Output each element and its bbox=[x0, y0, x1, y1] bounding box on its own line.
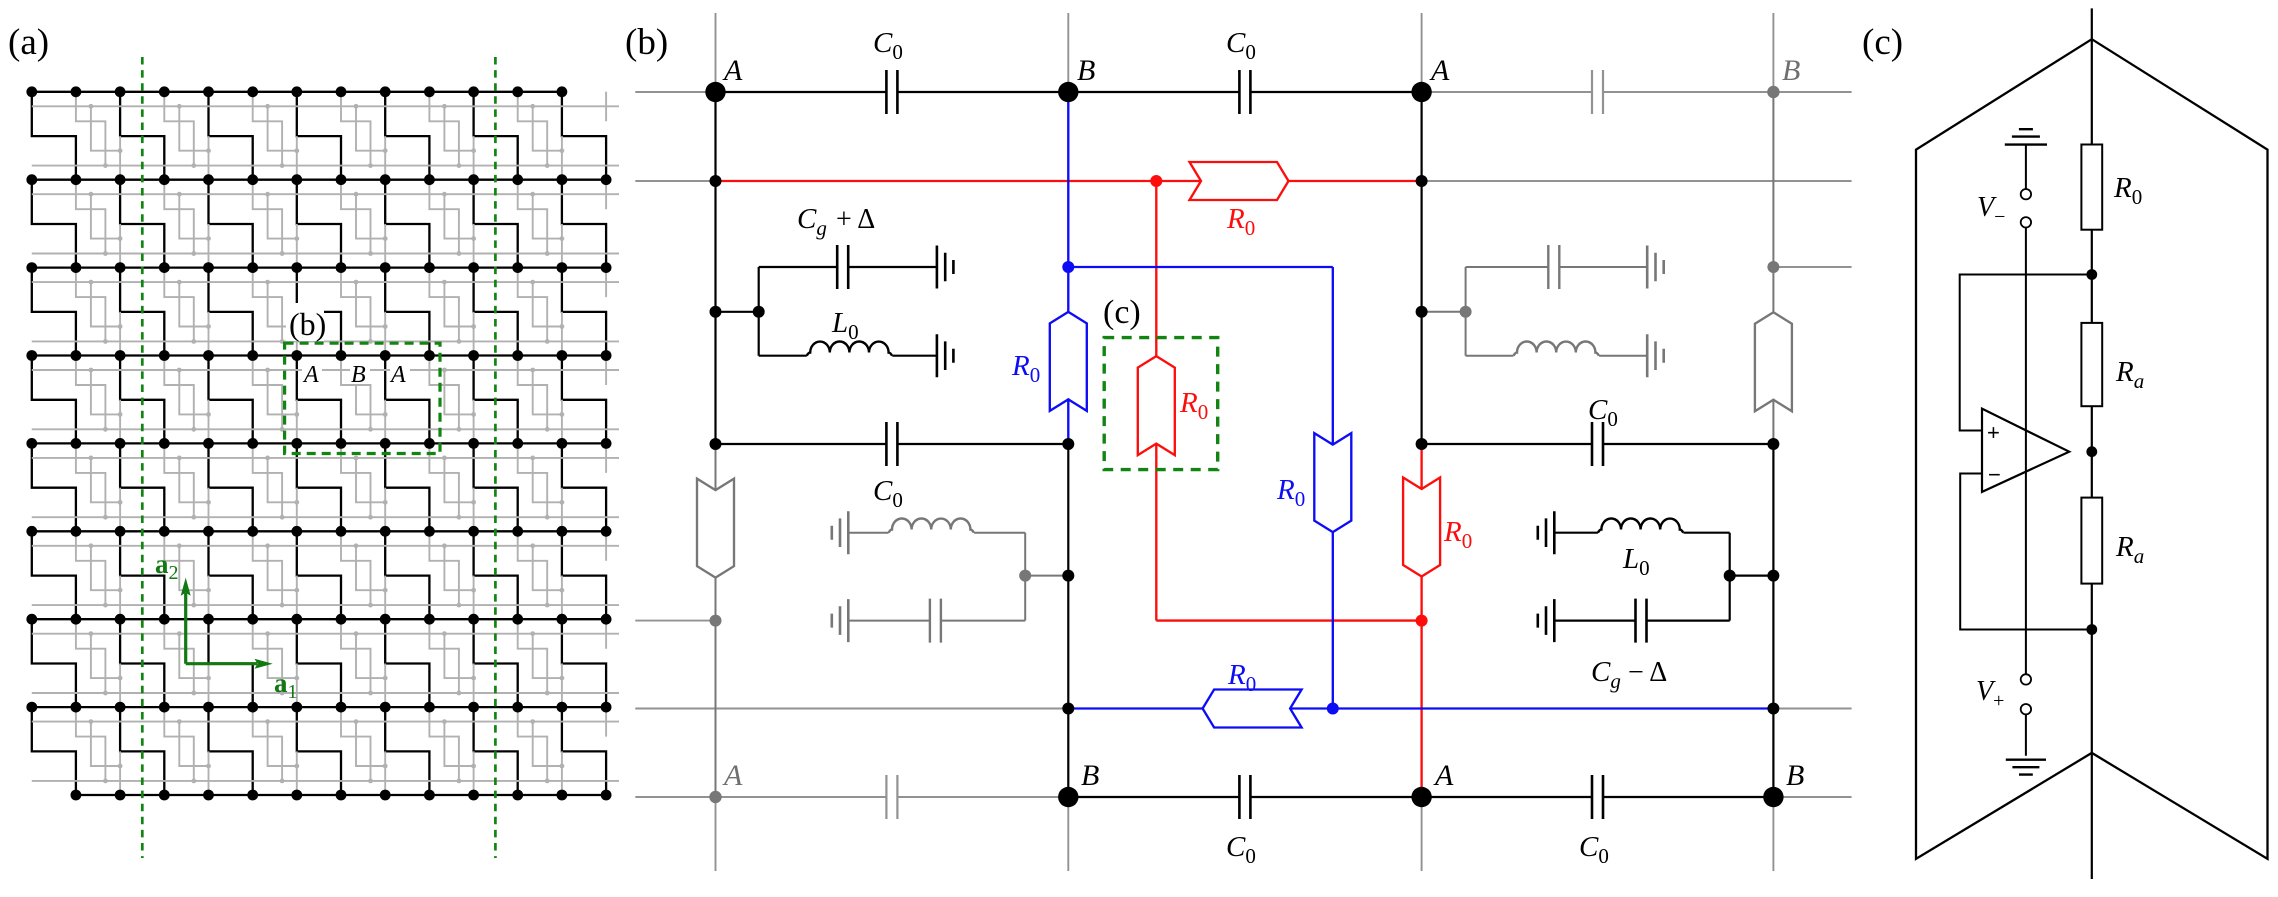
source terminal circles V+ bbox=[2021, 674, 2031, 684]
resistor R0 bbox=[2081, 145, 2102, 230]
wire: gray capacitor branch right cell bbox=[1466, 266, 1648, 268]
wire: LC vertical bbox=[758, 267, 760, 356]
capacitor Cg+Delta bbox=[837, 245, 848, 289]
ground bottom (V+) bbox=[2006, 760, 2046, 775]
wire: bottom row B1-A2 with C0 bbox=[1068, 796, 1421, 798]
svg-text:A: A bbox=[302, 362, 319, 388]
wire: gray A1 column below C0 row bbox=[715, 444, 717, 797]
junctions: gray jog nodes band 8 bbox=[89, 719, 565, 783]
node B1 top bbox=[1058, 82, 1078, 102]
junction: dot on A1 column at LC link bbox=[710, 306, 722, 318]
wire: blue lower bus with R0 arrow bbox=[1068, 707, 1773, 709]
lattice vector a2 arrow bbox=[181, 578, 191, 664]
junction: dot on A2 column at LC link bbox=[1416, 306, 1428, 318]
wire: gray stub above node A1 bbox=[715, 13, 717, 92]
wire: C0 row A1-B1 bbox=[716, 443, 1069, 445]
resistor R0 blue INIC arrow on lower bus (left) bbox=[1203, 690, 1302, 728]
wire: gray stub below B2 bottom bbox=[1772, 797, 1774, 871]
wires: gray bus lines band 7 bbox=[32, 634, 619, 693]
op-amp U1 triangle bbox=[1982, 409, 2069, 492]
capacitor Cg-Delta bbox=[1636, 599, 1647, 643]
junction: blue dot lower bus bbox=[1327, 703, 1339, 715]
wire: Cg capacitor branch bbox=[759, 266, 937, 268]
resistor Ra lower bbox=[2081, 498, 2102, 584]
wire: gray mid row stub at B2 bbox=[1773, 266, 1851, 268]
svg-text:A: A bbox=[1429, 54, 1450, 87]
inductor L0 gray bbox=[889, 519, 974, 533]
wire: lattice row 7 horizontal bbox=[32, 618, 606, 620]
wires: gray coupling jogs band 3 bbox=[76, 268, 606, 356]
svg-text:(c): (c) bbox=[1103, 294, 1141, 331]
unit cell box (b) green dashed rectangle bbox=[285, 343, 440, 453]
svg-text:B: B bbox=[1081, 759, 1099, 792]
node A1 top bbox=[705, 82, 725, 102]
svg-text:B: B bbox=[1786, 759, 1804, 792]
wire: red dropper vertical bbox=[1155, 181, 1157, 621]
wire: gray inductor branch right cell bbox=[1466, 355, 1648, 357]
junction: LC input dot bbox=[753, 306, 765, 318]
wires: gray bus lines band 8 bbox=[32, 722, 619, 781]
junctions: gray jog nodes band 6 bbox=[89, 543, 565, 607]
svg-text:B: B bbox=[1782, 54, 1800, 87]
wire: lattice row 2 horizontal bbox=[32, 179, 606, 181]
wires: black staircase couplings band 4 bbox=[32, 356, 606, 444]
svg-text:A: A bbox=[722, 54, 743, 87]
resistor Ra upper bbox=[2081, 323, 2102, 406]
wire: C0 row A2-B2 bbox=[1422, 443, 1774, 445]
outline: magnified INIC element shape bbox=[1916, 39, 2268, 859]
wires: black staircase couplings band 8 bbox=[32, 707, 606, 795]
sublattice labels A B A bbox=[302, 362, 322, 384]
capacitor gray on bottom row bbox=[886, 775, 897, 819]
svg-text:− Δ: − Δ bbox=[1628, 657, 1667, 688]
wires: gray bus lines band 3 bbox=[32, 282, 619, 341]
junctions: gray jog nodes band 5 bbox=[89, 456, 565, 520]
wire: gray stub above node A2 bbox=[1421, 13, 1423, 92]
wires: gray coupling jogs band 8 bbox=[76, 707, 606, 795]
wires: black staircase couplings band 2 bbox=[32, 180, 606, 268]
wire: L0 branch bottom right bbox=[1554, 532, 1729, 534]
wires: black staircase couplings band 7 bbox=[32, 619, 606, 707]
junction: gray dot A1 lower mid bbox=[710, 615, 722, 627]
capacitor gray on top row bbox=[1592, 70, 1603, 114]
wire: B1 column black lower bbox=[1067, 444, 1069, 797]
wires: black staircase couplings band 1 bbox=[32, 92, 606, 180]
capacitor C0 bottom left bbox=[1239, 775, 1250, 819]
resistor R0 red INIC arrow on upper bus (right) bbox=[1190, 162, 1289, 200]
ground top (V-) bbox=[2005, 129, 2047, 144]
resistor R0 blue INIC arrow on B1 column (up) bbox=[1050, 312, 1087, 411]
wire: gray capacitor branch bbox=[848, 620, 1025, 622]
svg-text:B: B bbox=[351, 362, 366, 388]
wire: A1 column vertical bbox=[714, 92, 716, 444]
wire: gray stub below A1 bottom bbox=[715, 797, 717, 871]
svg-text:−: − bbox=[1988, 462, 2001, 487]
wires: gray bus lines band 2 bbox=[32, 194, 619, 253]
wire: gray LC link to B1 column bbox=[1025, 575, 1068, 577]
wire: lattice row 6 horizontal bbox=[32, 530, 606, 532]
source terminal circles V- bbox=[2021, 189, 2031, 199]
wire: center column bbox=[2091, 8, 2093, 879]
junction: node X dot bbox=[2086, 269, 2097, 280]
junction: red dot upper bus bbox=[1150, 175, 1162, 187]
ground gray at capacitor branch bbox=[832, 599, 849, 642]
wire: gray stub above node B2 bbox=[1772, 13, 1774, 92]
junction: LC dot right cell bbox=[1724, 570, 1736, 582]
wire: blue dropper vertical bbox=[1332, 267, 1334, 709]
svg-text:(b): (b) bbox=[289, 306, 326, 342]
svg-text:A: A bbox=[722, 759, 743, 792]
wire: red A2 column through arrow bbox=[1420, 444, 1422, 797]
wires: black staircase couplings band 5 bbox=[32, 443, 606, 531]
wires: gray coupling jogs band 5 bbox=[76, 443, 606, 531]
lattice vector a1 arrow bbox=[186, 659, 273, 669]
svg-text:+ Δ: + Δ bbox=[836, 204, 875, 235]
wire: red lower mid horizontal bbox=[1156, 619, 1421, 621]
svg-text:A: A bbox=[389, 362, 406, 388]
capacitor C0 mid row right bbox=[1592, 422, 1603, 466]
wire: bottom row A2-B2 with C0 bbox=[1422, 796, 1774, 798]
node B1 bottom bbox=[1058, 787, 1078, 807]
wire: link LC to B2 bbox=[1730, 574, 1774, 576]
ground at Cg-Delta branch bbox=[1538, 599, 1555, 642]
junctions: gray jog nodes band 4 bbox=[89, 368, 565, 432]
wires: gray coupling jogs band 6 bbox=[76, 531, 606, 619]
wire: lattice row 8 horizontal bbox=[32, 706, 606, 708]
wire: lattice row 1 horizontal bbox=[32, 91, 562, 93]
wires: gray coupling jogs band 4 bbox=[76, 356, 606, 444]
wire: blue B1 column through arrow bbox=[1067, 267, 1069, 444]
wire: gray bottom row A1 to B1 with capacitor bbox=[716, 796, 1069, 798]
node A2 top bbox=[1411, 82, 1431, 102]
wire: link A1 to LC bbox=[716, 311, 759, 313]
capacitor C0 bottom right bbox=[1592, 775, 1603, 819]
node B2 bottom bbox=[1763, 787, 1783, 807]
wire: lattice row 5 horizontal bbox=[32, 442, 606, 444]
inductor L0 bbox=[807, 342, 892, 356]
resistor R0 red INIC arrow on A2 column (down) bbox=[1403, 478, 1440, 577]
wire: lattice row 3 horizontal bbox=[32, 266, 606, 268]
ground at Cg branch bbox=[937, 246, 954, 289]
ground gray right cell capacitor bbox=[1647, 246, 1664, 289]
wire: gray upper bus right segment bbox=[1422, 180, 1852, 182]
svg-text:B: B bbox=[1077, 54, 1095, 87]
junction: node Y dot bbox=[2086, 624, 2097, 635]
resistor R0 gray INIC arrow on B2 column (up) bbox=[1755, 312, 1792, 411]
wire: gray stub below B1 bottom bbox=[1067, 797, 1069, 871]
resistor R0 red INIC arrow inside (c) box (up) bbox=[1138, 356, 1175, 455]
wires: gray coupling jogs band 1 bbox=[76, 92, 606, 180]
resistor R0 gray INIC arrow on A1 column (down) bbox=[697, 479, 734, 578]
junctions: gray jog nodes band 2 bbox=[89, 192, 565, 256]
wire: minus input feedback to node Y bbox=[1960, 474, 2092, 630]
wire: gray upper bus left lead bbox=[635, 180, 715, 182]
wire: B2 column black lower bbox=[1772, 444, 1774, 797]
wires: black staircase couplings band 6 bbox=[32, 531, 606, 619]
wires: gray bus lines band 1 bbox=[32, 106, 619, 165]
wire: node X to plus input bbox=[1960, 275, 2092, 431]
junction: blue dot B1 mid bbox=[1062, 261, 1074, 273]
nodes: lattice site dots bbox=[26, 86, 611, 800]
unit element box (c) green dashed bbox=[1104, 338, 1218, 470]
wire: gray stub above node B1 bbox=[1067, 13, 1069, 92]
wire: gray lower bus left segment bbox=[635, 708, 1068, 710]
wire: gray top row A2 to B2 with capacitor bbox=[1422, 91, 1852, 93]
boundary: green dashed line left bbox=[141, 57, 144, 858]
label (b) on unit cell bbox=[286, 303, 324, 341]
inductor L0 gray right cell bbox=[1514, 342, 1599, 356]
ground at L0 branch bottom right bbox=[1538, 511, 1555, 554]
wires: gray bus lines band 5 bbox=[32, 458, 619, 517]
capacitor C0 top row right bbox=[1239, 70, 1250, 114]
wire: lattice row 9 horizontal bbox=[76, 794, 606, 796]
wire: L0 inductor branch bbox=[759, 355, 937, 357]
wire: gray link from A2 column bbox=[1422, 311, 1466, 313]
wire: gray lower bus right segment bbox=[1773, 708, 1851, 710]
wires: gray coupling jogs band 2 bbox=[76, 180, 606, 268]
resistor R0 blue INIC arrow on dropper (down) bbox=[1314, 433, 1351, 532]
wire: LC vertical bottom right bbox=[1729, 533, 1731, 621]
junctions: gray jog nodes band 1 bbox=[89, 104, 565, 168]
wire: A2 column vertical bbox=[1420, 92, 1422, 444]
junction: gray dot B2 mid row bbox=[1767, 261, 1779, 273]
junction: gray dot right LC bbox=[1460, 306, 1472, 318]
capacitor C0 mid row left bbox=[886, 422, 897, 466]
junction: gray LC mid dot bbox=[1019, 570, 1031, 582]
wire: gray LC vertical bbox=[1024, 533, 1026, 621]
wire: blue B1 column upper bbox=[1068, 92, 1333, 267]
wire: gray stub below A2 bottom bbox=[1421, 797, 1423, 871]
wire: gray top row left lead bbox=[635, 91, 715, 93]
wire: supply rail V- to V+ bbox=[2025, 145, 2027, 756]
wires: black staircase couplings band 3 bbox=[32, 268, 606, 356]
ground at L0 branch bbox=[937, 334, 954, 377]
capacitor gray right cell bbox=[1548, 245, 1559, 289]
capacitor gray to ground bbox=[930, 599, 941, 643]
wire: gray inductor branch bbox=[848, 532, 1025, 534]
wire: lattice row 4 horizontal bbox=[32, 354, 606, 356]
wire: top row A1-B1 with C0 bbox=[716, 91, 1069, 93]
node: gray A1 bottom bbox=[709, 791, 721, 803]
svg-text:A: A bbox=[1433, 759, 1454, 792]
junctions: gray jog nodes band 7 bbox=[89, 631, 565, 695]
wire: gray LC vertical right cell bbox=[1465, 267, 1467, 356]
node: gray B2 top bbox=[1767, 86, 1779, 98]
wire: gray bottom row right lead bbox=[1773, 796, 1851, 798]
wire: red upper bus A1 to R0 arrow bbox=[716, 180, 1422, 182]
junctions: black connection dots bbox=[710, 175, 1780, 715]
svg-text:(a): (a) bbox=[8, 22, 49, 63]
ground gray right cell inductor bbox=[1647, 334, 1664, 377]
wire: gray lower mid bus to A1 bbox=[635, 620, 715, 622]
wire: gray B2 column upper bbox=[1772, 92, 1774, 444]
wires: gray bus lines band 4 bbox=[32, 370, 619, 429]
wire: gray bottom row left lead bbox=[635, 796, 715, 798]
capacitor C0 top row left bbox=[886, 70, 897, 114]
svg-text:(c): (c) bbox=[1862, 22, 1903, 63]
junction: red dot lower mid bbox=[1416, 615, 1428, 627]
wire: top row B1-A2 with C0 bbox=[1068, 91, 1421, 93]
wire: Cg-Delta branch bbox=[1554, 619, 1729, 621]
wires: gray bus lines band 6 bbox=[32, 546, 619, 605]
svg-text:(b): (b) bbox=[625, 22, 668, 63]
ground gray at inductor branch bbox=[832, 511, 849, 554]
node A2 bottom bbox=[1411, 787, 1431, 807]
svg-text:+: + bbox=[1987, 420, 2000, 445]
boundary: green dashed line right bbox=[494, 57, 497, 858]
junctions: gray jog nodes band 3 bbox=[89, 280, 565, 344]
wires: gray coupling jogs band 7 bbox=[76, 619, 606, 707]
junction: dot on B2 at LC link bbox=[1767, 570, 1779, 582]
junction: output node dot bbox=[2086, 446, 2097, 457]
inductor L0 bottom right bbox=[1598, 519, 1683, 533]
